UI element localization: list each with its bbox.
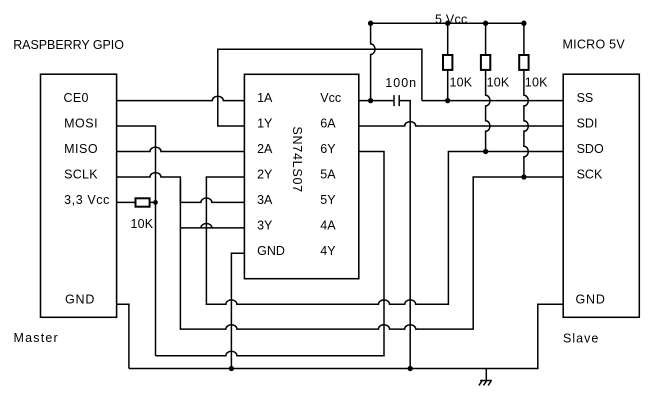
svg-text:100n: 100n — [385, 76, 417, 90]
resistor R2 top lead — [485, 23, 487, 55]
wire MOSI run to 6Y — [156, 152, 385, 356]
wire 5Vcc rail — [371, 22, 524, 24]
svg-text:GND: GND — [576, 293, 606, 307]
IC U1 SN74LS07 body — [244, 74, 358, 278]
svg-text:5A: 5A — [320, 168, 336, 182]
svg-text:SN74LS07: SN74LS07 — [290, 126, 304, 192]
resistor R2 10K body — [481, 55, 490, 70]
svg-text:5 Vcc: 5 Vcc — [435, 12, 468, 26]
junction Vcc cap node — [368, 98, 373, 103]
svg-text:1A: 1A — [257, 91, 273, 105]
junction rail left end — [368, 21, 373, 26]
junction rail R2 — [483, 21, 488, 26]
resistor R1 leads — [447, 23, 449, 100]
wire SCLK jog to 3A with hops — [117, 173, 245, 203]
resistor R2 bottom lead hopping SS SDI — [486, 70, 490, 152]
wire IC GND down — [231, 253, 244, 368]
svg-text:10K: 10K — [450, 76, 473, 90]
svg-text:GND: GND — [65, 293, 95, 307]
wire 3Y down across to SCK — [180, 177, 563, 329]
svg-text:SS: SS — [577, 91, 594, 105]
wire left box GND down — [117, 304, 129, 368]
junction R2 SDO — [483, 149, 488, 154]
junction IC GND rail — [229, 366, 234, 371]
resistor R3 10K body — [519, 55, 528, 70]
resistor R3 bottom lead hopping SS SDI SDO — [524, 70, 528, 177]
svg-text:4A: 4A — [320, 219, 336, 233]
box Micro 5V (Slave) — [563, 74, 639, 317]
wire 2Y down across to SDO — [206, 152, 563, 305]
junction rail R3 — [521, 21, 526, 26]
svg-text:3Y: 3Y — [257, 219, 273, 233]
svg-text:Slave: Slave — [563, 331, 599, 345]
svg-text:3,3 Vcc: 3,3 Vcc — [64, 193, 110, 207]
svg-text:Master: Master — [14, 331, 59, 345]
junction R3 SCK — [521, 174, 526, 179]
resistor R3 top lead — [523, 23, 525, 55]
svg-text:SDI: SDI — [577, 117, 598, 131]
svg-text:MISO: MISO — [64, 142, 98, 156]
wire 1Y up and over to SS riser — [218, 49, 422, 126]
svg-text:3A: 3A — [257, 193, 273, 207]
box Raspberry GPIO (Master) — [41, 74, 117, 317]
svg-text:10K: 10K — [131, 217, 154, 231]
wire MOSI to down corner — [117, 126, 156, 356]
svg-text:GND: GND — [257, 244, 285, 258]
svg-text:4Y: 4Y — [320, 244, 336, 258]
wire 6A to SDI with hop over cap vertical — [359, 122, 563, 126]
svg-text:1Y: 1Y — [257, 117, 273, 131]
svg-text:MOSI: MOSI — [64, 117, 98, 131]
svg-text:SCK: SCK — [577, 168, 603, 182]
svg-text:SDO: SDO — [577, 142, 604, 156]
junction rail R1 — [445, 21, 450, 26]
svg-text:2A: 2A — [257, 142, 273, 156]
resistor R1 10K body — [443, 55, 452, 70]
svg-text:10K: 10K — [487, 76, 510, 90]
capacitor C1 100n plates — [394, 95, 399, 106]
wire 3,3Vcc to resistor — [117, 201, 156, 203]
resistor R5 10K mosi pull-up — [136, 198, 150, 206]
svg-text:SCLK: SCLK — [64, 168, 98, 182]
wire GND bottom rail to right box GND — [129, 304, 563, 368]
ground symbol — [479, 369, 492, 386]
wire MISO to 2A with hop — [117, 147, 245, 151]
junction 10K MOSI — [153, 200, 158, 205]
wire Vcc pin to capacitor — [359, 100, 394, 102]
svg-text:Vcc: Vcc — [320, 91, 341, 105]
svg-text:6Y: 6Y — [320, 142, 336, 156]
svg-text:6A: 6A — [320, 117, 336, 131]
wire SS line — [422, 100, 563, 102]
wire rail down to cap node with hop over 1Y line — [371, 23, 375, 100]
junction R1 SS — [445, 98, 450, 103]
svg-text:10K: 10K — [525, 76, 548, 90]
junction cap gnd rail — [408, 366, 413, 371]
svg-text:CE0: CE0 — [64, 91, 89, 105]
wire CE0 to 1A with hop — [117, 96, 245, 100]
svg-text:2Y: 2Y — [257, 168, 273, 182]
svg-text:5Y: 5Y — [320, 193, 336, 207]
svg-text:RASPBERRY GPIO: RASPBERRY GPIO — [13, 38, 124, 52]
svg-text:MICRO 5V: MICRO 5V — [563, 38, 626, 52]
wire capacitor to gnd rail — [400, 101, 410, 369]
